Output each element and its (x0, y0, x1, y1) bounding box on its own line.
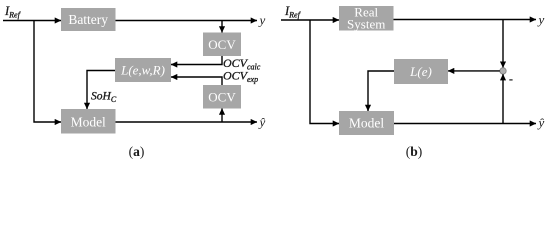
wire I_Ref branch down to Model (b) (310, 20, 339, 124)
svg-text:(b): (b) (406, 144, 423, 159)
svg-text:(a): (a) (129, 144, 145, 159)
wire I_Ref branch down to Model (34, 21, 61, 123)
block Battery (61, 8, 116, 31)
block Model (a) (61, 109, 116, 134)
wire Model to y-hat (116, 121, 258, 123)
block OCV U1 (203, 33, 241, 57)
svg-text:System: System (347, 17, 385, 32)
svg-text:Model: Model (71, 115, 106, 130)
svg-text:L(e): L(e) (409, 64, 432, 79)
wire junction to L(e) (448, 70, 500, 72)
svg-text:SoHC: SoHC (91, 91, 117, 105)
wire I_Ref to Real System (281, 19, 339, 21)
wire y-hat branch up to OCV2 (221, 109, 223, 123)
svg-text:ŷ: ŷ (537, 115, 545, 130)
block Model (b) (339, 111, 394, 135)
svg-text:OCV: OCV (208, 89, 236, 104)
svg-text:L(e,w,R): L(e,w,R) (120, 63, 165, 78)
wire L(e) to Model (b) (368, 71, 394, 111)
svg-text:IRef: IRef (4, 4, 22, 20)
wire Battery to y (116, 20, 258, 22)
block OCV U2 (203, 85, 241, 109)
svg-text:OCV: OCV (208, 37, 236, 52)
wire y branch down to summing junction (502, 20, 504, 68)
svg-text:IRef: IRef (284, 4, 302, 20)
block Real System (339, 6, 394, 31)
wire y-hat branch up to junction (502, 74, 504, 123)
svg-text:Battery: Battery (68, 12, 108, 27)
svg-text:y: y (537, 12, 545, 27)
wire Model to y-hat (b) (394, 123, 536, 125)
wire I_Ref to Battery (3, 20, 61, 22)
block L(e,w,R) (115, 58, 171, 82)
summing junction (500, 68, 506, 74)
wire Real System to y (394, 19, 537, 21)
wire OCV2 to L (OCV_exp) (171, 77, 222, 85)
svg-text:Model: Model (349, 116, 384, 131)
wire y branch down to OCV1 (221, 21, 223, 33)
svg-text:ŷ: ŷ (258, 115, 266, 130)
svg-text:y: y (258, 13, 266, 28)
block L(e) (394, 59, 448, 84)
wire OCV1 to L (OCV_calc) (171, 56, 222, 65)
wire L to Model (SoH_C) (87, 71, 115, 110)
label minus (509, 79, 512, 81)
